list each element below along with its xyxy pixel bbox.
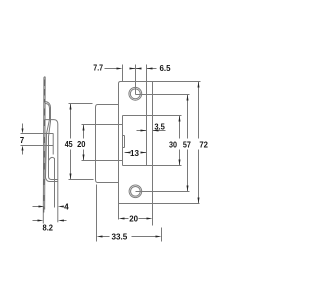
3.5 right arrow bbox=[153, 130, 159, 132]
dim 45 top extension bbox=[69, 103, 93, 105]
box top edge / 20 top extension bbox=[82, 124, 123, 126]
lip bottom edge with corner bbox=[96, 180, 119, 183]
33.5 left arrow bbox=[97, 236, 103, 238]
dim 45 bottom extension bbox=[69, 179, 94, 181]
57 top arrow bbox=[187, 95, 189, 101]
svg-text:33.5: 33.5 bbox=[112, 232, 128, 242]
plate top edge + 72 top extension bbox=[121, 81, 201, 83]
blade back face + extension bbox=[44, 77, 47, 210]
top screw hole bbox=[129, 87, 142, 197]
33.5 right arrow bbox=[156, 236, 162, 238]
4 left arrow bbox=[39, 206, 45, 208]
dim 13 line bbox=[125, 152, 129, 154]
blade top cap bbox=[44, 76, 45, 79]
dim 8.2 line right bbox=[61, 220, 67, 222]
7 lower arrow (points up to tip) bbox=[22, 146, 24, 151]
dim 7 bottom extension / tab bottom edge bbox=[21, 145, 54, 147]
dim 20 left line (broken for text) bbox=[83, 125, 85, 139]
20 left bottom arrow bbox=[83, 155, 85, 161]
45 top arrow bbox=[70, 104, 72, 110]
svg-text:20: 20 bbox=[129, 213, 138, 223]
lip top edge with corner bbox=[96, 105, 119, 108]
tab top edge bbox=[123, 135, 125, 137]
latch opening left edge bbox=[122, 116, 124, 166]
plate right edge + bottom 20 extension bbox=[152, 82, 154, 226]
6.5 left arrow (tip at hole centerline, body left) bbox=[130, 68, 136, 70]
svg-text:7: 7 bbox=[20, 135, 25, 145]
7.7 right arrow (tip at hole centerline, body right) bbox=[136, 68, 142, 70]
svg-text:30: 30 bbox=[169, 139, 177, 149]
20 left top arrow bbox=[83, 125, 85, 131]
72 top arrow bbox=[198, 82, 200, 88]
latch opening right edge + 6.5 extension bbox=[146, 65, 148, 166]
45 bottom arrow bbox=[70, 174, 72, 180]
lip left edge bbox=[95, 108, 97, 180]
arrowheads bbox=[22, 68, 200, 238]
dim 6.5 line segment bbox=[147, 68, 157, 70]
lip inner line bbox=[46, 104, 58, 182]
13 left arrow bbox=[125, 152, 131, 154]
dim 4 line left bbox=[33, 206, 40, 208]
svg-text:8.2: 8.2 bbox=[43, 222, 54, 232]
latch opening top edge + 30 top extension bbox=[123, 115, 182, 117]
bottom screw hole bbox=[129, 185, 142, 198]
57 bottom arrow bbox=[187, 186, 189, 192]
plate bottom edge + 72 bottom extension bbox=[119, 203, 200, 205]
svg-text:20: 20 bbox=[77, 139, 86, 149]
svg-text:13: 13 bbox=[130, 148, 139, 158]
latch opening bottom edge + 30 bottom extension bbox=[123, 165, 182, 167]
72 bottom arrow bbox=[198, 198, 200, 204]
lip outer line bbox=[46, 102, 58, 180]
30 top arrow bbox=[179, 116, 181, 122]
plate top-left corner arc bbox=[119, 82, 121, 84]
svg-text:7.7: 7.7 bbox=[93, 63, 103, 73]
dimension texts bbox=[20, 63, 208, 242]
dim 7.7 left extension line bbox=[122, 65, 124, 82]
blade section fill dashes bbox=[43, 80, 46, 213]
dim 20 bottom line bbox=[125, 218, 129, 220]
dim 4 line right bbox=[62, 206, 64, 208]
dim 7 top extension / tab top edge bbox=[21, 133, 54, 135]
top hole vertical centerline bbox=[135, 65, 137, 95]
dim 33.5 line bbox=[103, 236, 110, 238]
30 bottom arrow bbox=[179, 160, 181, 166]
svg-text:57: 57 bbox=[183, 139, 191, 149]
tab bottom edge bbox=[123, 147, 125, 149]
tab side-view right face bbox=[52, 134, 54, 155]
dim 7 lower arrow line bbox=[22, 151, 24, 155]
dim 3.5 line right under text bbox=[153, 130, 166, 132]
blade front face + extension bbox=[42, 77, 45, 223]
7.7 left arrow bbox=[117, 68, 123, 70]
dim 30 line bbox=[179, 116, 181, 139]
dim 3.5 leader line left bbox=[137, 130, 147, 132]
dim 7 upper arrow line bbox=[22, 124, 24, 130]
dim 33.5 left extension bbox=[96, 185, 98, 242]
dim 33.5 right extension bbox=[161, 228, 163, 242]
box inner wall with top hook bbox=[49, 157, 55, 207]
8.2 right arrow bbox=[58, 220, 64, 222]
dim 45 line (broken for text) bbox=[70, 104, 72, 139]
svg-text:72: 72 bbox=[199, 139, 208, 149]
top hole horizontal centerline + 57 top extension bbox=[136, 94, 190, 96]
svg-text:45: 45 bbox=[65, 139, 73, 149]
tab in opening: right edge bbox=[124, 136, 126, 148]
box outer face bbox=[57, 124, 59, 222]
box bottom edge / 20 bottom extension bbox=[82, 160, 123, 162]
dim 8.2 line left bbox=[33, 220, 39, 222]
dim 7.7 line segments bbox=[105, 68, 117, 70]
svg-text:4: 4 bbox=[64, 201, 69, 211]
7 upper arrow (points down to tip) bbox=[22, 129, 24, 134]
plate left edge bbox=[118, 84, 120, 220]
box top step line from blade to box outer face bbox=[46, 120, 58, 124]
dim 57 line (broken for text) bbox=[187, 95, 189, 139]
3.5 left arrow bbox=[141, 130, 147, 132]
8.2 left arrow bbox=[38, 220, 44, 222]
4 right arrow bbox=[58, 206, 64, 208]
13 right arrow bbox=[141, 152, 147, 154]
bottom hole horizontal centerline + 57 bottom extension bbox=[136, 191, 190, 193]
svg-text:6.5: 6.5 bbox=[160, 63, 171, 73]
svg-text:3.5: 3.5 bbox=[154, 121, 165, 131]
20 bottom right arrow bbox=[147, 218, 153, 220]
20 bottom left arrow bbox=[119, 218, 125, 220]
dim 72 line bbox=[198, 82, 200, 139]
6.5 right arrow bbox=[147, 68, 153, 70]
